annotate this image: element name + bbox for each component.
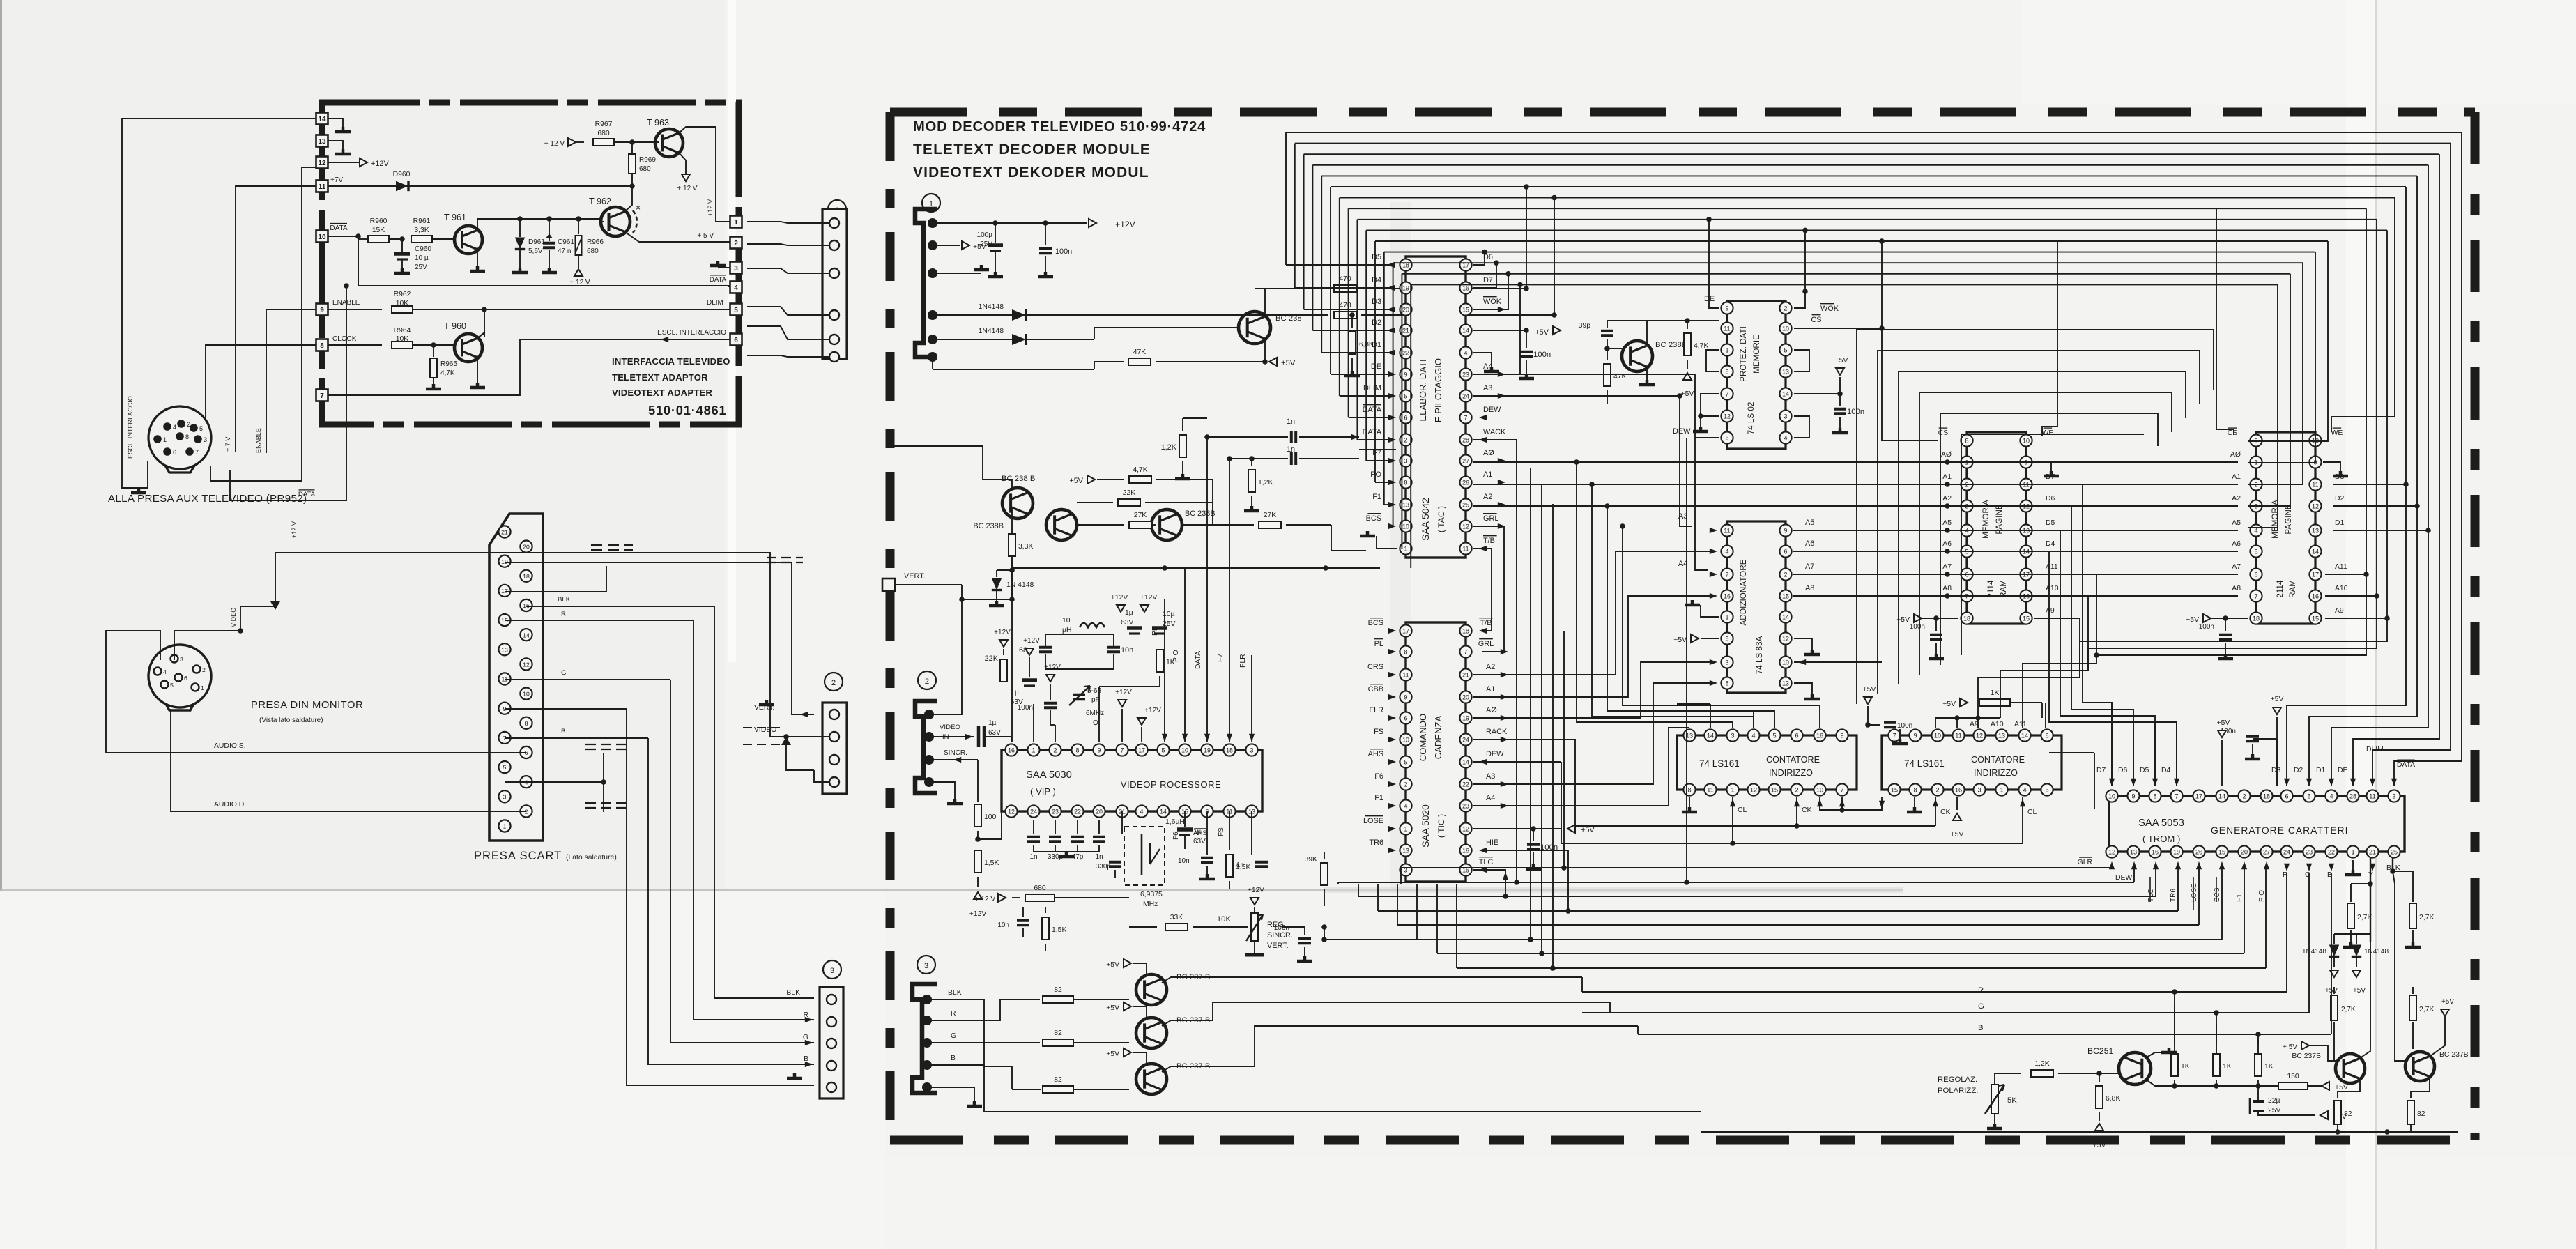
svg-text:SAA 5053: SAA 5053 bbox=[2138, 818, 2184, 829]
svg-text:2: 2 bbox=[1784, 305, 1788, 312]
svg-text:AØ: AØ bbox=[1483, 449, 1494, 457]
wire bc238b prot emitter gnd bbox=[1646, 367, 1648, 380]
capacitor 1u 63V vip bbox=[1127, 626, 1142, 630]
svg-text:D2: D2 bbox=[2335, 495, 2345, 503]
svg-text:11: 11 bbox=[1724, 527, 1730, 534]
svg-text:14: 14 bbox=[1462, 327, 1469, 334]
wire video arrow drop bbox=[781, 737, 791, 745]
2114 +5V 100n ram1 bbox=[1915, 618, 1958, 619]
2114 pin9 gnd ram2 bbox=[2323, 462, 2340, 471]
svg-text:23: 23 bbox=[1462, 371, 1469, 378]
svg-text:8: 8 bbox=[1965, 437, 1968, 444]
trimmer 5-65pF bbox=[1073, 695, 1085, 699]
svg-text:INDIRIZZO: INDIRIZZO bbox=[1769, 768, 1813, 778]
svg-text:17: 17 bbox=[1138, 746, 1145, 753]
svg-text:7: 7 bbox=[1464, 648, 1468, 655]
SAA5020 left pin labels bbox=[1370, 618, 1383, 619]
cnt1 CL arrow bbox=[1732, 797, 1733, 843]
svg-text:1K: 1K bbox=[1166, 659, 1175, 666]
svg-text:330p: 330p bbox=[1096, 863, 1112, 871]
svg-text:CL: CL bbox=[1738, 806, 1747, 814]
svg-text:5: 5 bbox=[734, 307, 738, 314]
wire audio s to din bbox=[106, 631, 216, 753]
svg-text:18: 18 bbox=[1226, 746, 1233, 753]
ic 2114 RAM pins left ram1 bbox=[1961, 434, 1972, 446]
svg-text:DEW: DEW bbox=[1673, 427, 1691, 436]
svg-text:100n: 100n bbox=[1847, 408, 1864, 416]
svg-text:10: 10 bbox=[2108, 792, 2115, 799]
svg-text:19: 19 bbox=[1402, 284, 1409, 291]
SAA5053 pin1 gnd bbox=[2352, 860, 2354, 870]
wire a9 join bbox=[2079, 641, 2080, 677]
wire conn2 pin1 up to vert bbox=[929, 599, 962, 714]
shield dashes near scart top bbox=[591, 545, 633, 550]
wire A6 line bbox=[1793, 551, 2238, 552]
wire riser f1 long bbox=[1552, 504, 1554, 968]
wire bus13 left corner drop bbox=[1401, 274, 1402, 549]
svg-text:BCS: BCS bbox=[1366, 514, 1381, 523]
wire reg sincr line bbox=[1324, 939, 1417, 940]
svg-text:SAA 5042: SAA 5042 bbox=[1420, 498, 1431, 541]
svg-text:A3: A3 bbox=[1486, 772, 1495, 781]
wires adapter pins to plug1 bbox=[747, 222, 829, 223]
wire B line long bbox=[1638, 1034, 2331, 1035]
ic 2114 RAM body ram1 bbox=[1967, 432, 2026, 624]
+5V bc237 q1 bbox=[1124, 959, 1131, 967]
wire bus line 8 bbox=[1357, 219, 2377, 220]
svg-text:+5V: +5V bbox=[1106, 1004, 1119, 1012]
wire y2 collector bbox=[2430, 1016, 2445, 1056]
svg-text:8: 8 bbox=[525, 720, 528, 727]
74LS83A pin1 gnd bbox=[1701, 605, 1719, 617]
svg-text:100n: 100n bbox=[1018, 704, 1033, 712]
svg-text:+5V: +5V bbox=[2093, 1142, 2106, 1149]
svg-text:17: 17 bbox=[2195, 792, 2202, 799]
74LS02 jumper 7-12 gnd bbox=[1701, 394, 1719, 416]
svg-text:CADENZA: CADENZA bbox=[1433, 715, 1443, 759]
svg-text:AUDIO S.: AUDIO S. bbox=[214, 742, 246, 750]
wire DLIM to pin5 bbox=[484, 309, 730, 310]
wire vert node down to vip pin16 bbox=[1011, 560, 1013, 570]
svg-text:26: 26 bbox=[1462, 479, 1469, 486]
resistor 47K prot bbox=[1607, 348, 1608, 360]
svg-text:1,6µH: 1,6µH bbox=[1165, 818, 1185, 826]
svg-text:PL: PL bbox=[1374, 640, 1383, 648]
svg-text:6: 6 bbox=[1404, 414, 1408, 421]
svg-text:10: 10 bbox=[1782, 325, 1789, 332]
wire DEW drop from 74LS02 bbox=[1686, 438, 1687, 882]
wire A3 riser bbox=[1473, 396, 1692, 526]
svg-text:D3: D3 bbox=[2271, 767, 2281, 774]
svg-text:D4: D4 bbox=[2046, 540, 2055, 548]
svg-text:TLC: TLC bbox=[2147, 889, 2155, 902]
2114 left labels ram1 bbox=[1939, 427, 1948, 429]
svg-text:3: 3 bbox=[924, 962, 928, 970]
capacitor 10n left bbox=[1022, 907, 1024, 917]
wire a10 join bbox=[2087, 648, 2089, 671]
svg-text:47 n: 47 n bbox=[558, 247, 571, 255]
svg-text:470: 470 bbox=[1339, 275, 1351, 283]
svg-text:ESCL. INTERLACCIO: ESCL. INTERLACCIO bbox=[127, 396, 134, 459]
svg-text:BLK: BLK bbox=[2386, 864, 2400, 872]
module connector 1 bracket bbox=[915, 209, 937, 357]
svg-text:D1: D1 bbox=[2316, 767, 2326, 774]
ic 74LS161 pins top cnt1 bbox=[1683, 729, 1695, 741]
svg-text:4: 4 bbox=[2329, 792, 2333, 799]
wire bus line 13 bbox=[1402, 273, 2290, 275]
svg-text:D1: D1 bbox=[2335, 519, 2345, 527]
ic 74LS161 body cnt2 bbox=[1882, 735, 2062, 790]
svg-text:3: 3 bbox=[1784, 413, 1788, 420]
svg-text:22: 22 bbox=[2328, 848, 2335, 855]
svg-text:+5V: +5V bbox=[1863, 686, 1876, 694]
svg-text:A2: A2 bbox=[2232, 495, 2241, 503]
svg-text:10: 10 bbox=[1934, 732, 1941, 739]
plug 3 external bbox=[820, 987, 843, 1098]
wire bus11 right to ram2 addr bbox=[2248, 252, 2315, 463]
svg-text:BC 238B: BC 238B bbox=[973, 522, 1004, 530]
wire D6 riser bbox=[1473, 252, 1485, 265]
svg-text:1K: 1K bbox=[2181, 1063, 2190, 1071]
svg-text:3: 3 bbox=[180, 656, 183, 663]
svg-text:6: 6 bbox=[1784, 548, 1788, 555]
svg-text:T/B: T/B bbox=[1480, 619, 1492, 627]
svg-text:4: 4 bbox=[173, 424, 176, 431]
module connector 1 pins bbox=[928, 218, 937, 228]
wire VIDEO into plug2 bbox=[770, 736, 829, 737]
wire +7V from pin11 bbox=[236, 186, 316, 452]
svg-text:18: 18 bbox=[523, 573, 530, 580]
ic 74LS161 pins bottom cnt1 bbox=[1683, 783, 1695, 795]
svg-text:3: 3 bbox=[204, 436, 207, 443]
svg-text:8: 8 bbox=[1404, 479, 1408, 486]
wire bus line 12 bbox=[1393, 262, 2303, 263]
svg-text:3: 3 bbox=[1250, 746, 1254, 753]
svg-text:B: B bbox=[951, 1055, 956, 1062]
transistor T963 bbox=[655, 129, 683, 157]
svg-text:CL: CL bbox=[2027, 809, 2037, 816]
svg-text:PRESA SCART: PRESA SCART bbox=[474, 850, 562, 862]
wire G from scart11 bbox=[505, 679, 670, 680]
svg-text:A6: A6 bbox=[1942, 540, 1952, 548]
svg-text:CRS: CRS bbox=[1367, 663, 1383, 671]
wire A4 tic riser bbox=[1473, 728, 1689, 806]
svg-text:8: 8 bbox=[1404, 648, 1408, 655]
wire HIE riser bbox=[1482, 850, 1568, 911]
svg-text:13: 13 bbox=[1782, 368, 1789, 375]
svg-text:CS: CS bbox=[2228, 429, 2238, 437]
svg-text:8: 8 bbox=[2153, 792, 2156, 799]
svg-text:D960: D960 bbox=[393, 171, 411, 178]
svg-text:T 961: T 961 bbox=[444, 213, 466, 222]
svg-text:26: 26 bbox=[2195, 848, 2202, 855]
plug 3 circled label bbox=[823, 960, 841, 979]
svg-text:D7: D7 bbox=[2096, 767, 2106, 774]
capacitor C960 10u 25V bbox=[401, 239, 403, 252]
wire A0 line bbox=[1473, 461, 2238, 463]
wire +7V rail pin11 bbox=[328, 185, 632, 187]
svg-text:1: 1 bbox=[1726, 346, 1729, 353]
svg-text:4: 4 bbox=[1140, 808, 1144, 815]
svg-text:12: 12 bbox=[1724, 413, 1731, 420]
capacitor 1n f7 bbox=[1229, 458, 1288, 459]
wire bus10 right to ram2 addr bbox=[2248, 241, 2328, 441]
wire 27Kb to saa5042 bbox=[1331, 525, 1366, 551]
svg-text:DATA: DATA bbox=[710, 276, 727, 284]
svg-text:8: 8 bbox=[1726, 368, 1729, 375]
svg-text:P O: P O bbox=[2258, 890, 2266, 902]
wire bus line 6 bbox=[1340, 197, 2395, 199]
wire bus5 left corner drop bbox=[1330, 187, 1331, 374]
wire bus line 10 bbox=[1375, 240, 2328, 242]
wire bus3 right drop D-line bbox=[2331, 165, 2428, 786]
svg-text:+12 V: +12 V bbox=[707, 199, 714, 216]
svg-text:2: 2 bbox=[1404, 781, 1408, 788]
svg-text:C961: C961 bbox=[558, 238, 574, 246]
svg-text:WE: WE bbox=[2331, 429, 2343, 437]
svg-text:D5: D5 bbox=[2046, 519, 2055, 527]
transistor BC238B prot bbox=[1622, 341, 1653, 371]
svg-text:1µ: 1µ bbox=[1125, 609, 1133, 617]
svg-text:20: 20 bbox=[2241, 848, 2248, 855]
svg-text:R960: R960 bbox=[370, 217, 388, 225]
svg-text:7: 7 bbox=[1464, 414, 1468, 421]
wire bus8 right to ram2 A10 bbox=[2376, 220, 2377, 596]
resistor 1K b bbox=[2216, 1045, 2217, 1054]
svg-text:R969: R969 bbox=[639, 156, 656, 164]
wire T/B riser bbox=[1473, 549, 1492, 631]
svg-text:BC 238 B: BC 238 B bbox=[1002, 475, 1035, 483]
wire pin1 22K bbox=[1033, 704, 1034, 742]
wire riser f7 long bbox=[1530, 468, 1531, 940]
svg-text:T/B: T/B bbox=[1483, 537, 1495, 545]
svg-text:2: 2 bbox=[925, 677, 929, 686]
svg-text:B: B bbox=[804, 1055, 808, 1063]
plug3 gnd symbol bbox=[787, 1073, 802, 1078]
wire ram2 A11 link bbox=[2096, 574, 2366, 655]
svg-text:ELABOR. DATI: ELABOR. DATI bbox=[1418, 359, 1428, 421]
svg-text:G: G bbox=[951, 1032, 956, 1040]
svg-text:B: B bbox=[1978, 1024, 1984, 1032]
+5V pair below diodes bbox=[2330, 970, 2338, 977]
svg-text:11: 11 bbox=[319, 183, 326, 191]
svg-text:+5V: +5V bbox=[2353, 987, 2366, 995]
wire bus line 7 bbox=[1349, 208, 2366, 209]
svg-text:10K: 10K bbox=[1217, 915, 1232, 924]
svg-text:+5V: +5V bbox=[1106, 961, 1119, 969]
cnt2 pin16 +5V bbox=[1956, 797, 1958, 810]
SAA5020 100n cap bbox=[1531, 826, 1536, 832]
svg-text:19: 19 bbox=[1204, 746, 1211, 753]
svg-text:10: 10 bbox=[1062, 617, 1071, 624]
resistor 150 bbox=[2258, 1085, 2278, 1087]
svg-text:+5V: +5V bbox=[1535, 328, 1549, 337]
ic 74LS02 pins right bbox=[1779, 302, 1791, 314]
svg-text:12: 12 bbox=[2312, 503, 2319, 509]
svg-text:6: 6 bbox=[2285, 792, 2288, 799]
wire bus4 left corner drop bbox=[1321, 176, 1322, 353]
wire bus line 9 bbox=[1366, 229, 2387, 231]
svg-text:74 LS 83A: 74 LS 83A bbox=[1755, 636, 1764, 675]
svg-text:A8: A8 bbox=[1942, 585, 1952, 592]
wire data drop bbox=[358, 236, 359, 286]
svg-text:A2: A2 bbox=[1942, 495, 1952, 503]
svg-text:1: 1 bbox=[1726, 613, 1729, 620]
svg-text:RACK: RACK bbox=[1486, 728, 1508, 736]
svg-text:9: 9 bbox=[1098, 746, 1101, 753]
wire bottom bus TR6 bbox=[1378, 910, 2178, 912]
module connector 3 bracket bbox=[912, 984, 937, 1093]
svg-text:47K: 47K bbox=[1133, 348, 1147, 356]
svg-text:15: 15 bbox=[2218, 848, 2225, 855]
wire T960 collector bbox=[477, 333, 484, 338]
wire nest-e loop 1 bbox=[1878, 351, 2200, 694]
svg-text:33K: 33K bbox=[1170, 914, 1183, 921]
svg-text:AØ: AØ bbox=[2230, 451, 2241, 459]
svg-text:14: 14 bbox=[1782, 390, 1789, 397]
svg-text:12: 12 bbox=[1008, 808, 1015, 815]
svg-text:5: 5 bbox=[1404, 392, 1408, 399]
svg-text:13: 13 bbox=[2130, 848, 2137, 855]
wire q1 out bbox=[1162, 977, 1582, 983]
wire scart4 bridge bbox=[505, 781, 604, 783]
wire bus line 2 bbox=[1304, 153, 2439, 155]
svg-text:22K: 22K bbox=[985, 654, 999, 663]
wire CS drop bbox=[1881, 241, 1883, 328]
transistor BC238B v3 bbox=[1151, 509, 1182, 540]
transistor BC251 bbox=[2119, 1052, 2151, 1085]
svg-text:1: 1 bbox=[734, 219, 738, 227]
svg-text:3: 3 bbox=[1726, 659, 1729, 666]
svg-text:R966: R966 bbox=[587, 238, 604, 246]
svg-text:27: 27 bbox=[1462, 457, 1469, 464]
svg-text:+5V: +5V bbox=[2335, 1084, 2348, 1091]
wire bus12 right to ram2 addr bbox=[2248, 263, 2303, 484]
svg-text:5: 5 bbox=[503, 764, 507, 771]
svg-text:SINCR.: SINCR. bbox=[1267, 931, 1293, 940]
svg-text:MHz: MHz bbox=[1143, 901, 1158, 908]
wire conn2 pin4 gnd bbox=[929, 782, 955, 799]
svg-text:16: 16 bbox=[1724, 592, 1731, 599]
svg-text:A11: A11 bbox=[2046, 563, 2058, 571]
svg-text:1: 1 bbox=[2351, 848, 2354, 855]
wire pin9 up bbox=[1098, 687, 1100, 742]
svg-text:100µ: 100µ bbox=[977, 231, 993, 239]
capacitor 1n right bbox=[1251, 811, 1252, 855]
svg-text:13: 13 bbox=[1998, 732, 2005, 739]
wire nest-e stub verticals bbox=[2213, 330, 2214, 390]
wire bus7 left corner drop bbox=[1348, 208, 1349, 417]
svg-text:R: R bbox=[561, 611, 566, 618]
ic 74LS161 pins bottom cnt2 bbox=[1888, 783, 1900, 795]
svg-text:9: 9 bbox=[2131, 792, 2135, 799]
74LS02 pin14 +5V 100n bbox=[1794, 393, 1840, 394]
svg-text:( TAC ): ( TAC ) bbox=[1436, 506, 1446, 532]
svg-text:6: 6 bbox=[173, 449, 176, 456]
svg-text:10: 10 bbox=[318, 233, 326, 241]
Y line from pin21 bbox=[2370, 852, 2371, 942]
svg-text:2: 2 bbox=[187, 421, 190, 428]
svg-text:13: 13 bbox=[501, 646, 508, 653]
wire sincr node bbox=[977, 799, 979, 802]
svg-text:24: 24 bbox=[1030, 808, 1037, 815]
svg-text:R: R bbox=[803, 1011, 808, 1019]
SCART connector body bbox=[489, 514, 543, 841]
svg-text:1: 1 bbox=[2000, 786, 2003, 793]
wire +12V feed R967 bbox=[568, 138, 576, 146]
svg-text:100n: 100n bbox=[1055, 247, 1072, 256]
plug 1 external bbox=[822, 209, 847, 359]
wire cnt bridge to cnt2 pin15 bbox=[1842, 797, 1882, 810]
svg-text:( VIP ): ( VIP ) bbox=[1030, 786, 1056, 797]
svg-text:7: 7 bbox=[1726, 390, 1729, 397]
wire +12V to din pin7 bbox=[210, 466, 211, 481]
svg-text:1,2K: 1,2K bbox=[2034, 1060, 2049, 1068]
svg-text:TR6: TR6 bbox=[1369, 838, 1383, 847]
svg-text:25V: 25V bbox=[415, 263, 427, 271]
module connector 2 bracket bbox=[915, 701, 937, 793]
svg-text:3: 3 bbox=[830, 967, 834, 975]
svg-text:VERT.: VERT. bbox=[754, 704, 774, 712]
svg-text:4,7K: 4,7K bbox=[440, 369, 455, 377]
wire B from scart7 bbox=[505, 737, 648, 739]
svg-text:20: 20 bbox=[1462, 694, 1469, 700]
capacitor 10u 25V vip bbox=[1152, 626, 1167, 630]
svg-text:1: 1 bbox=[1404, 545, 1408, 552]
fold line horizontal bbox=[0, 889, 1903, 891]
svg-text:+5V: +5V bbox=[1681, 390, 1694, 398]
wire bus line 5 bbox=[1331, 186, 2406, 187]
74LS02 WOK bbox=[1794, 291, 1805, 308]
wire bus6 right to ram2 WE bbox=[2331, 198, 2395, 432]
wire AUDIO D from scart2 bbox=[216, 811, 526, 812]
svg-text:TELETEXT DECODER MODULE: TELETEXT DECODER MODULE bbox=[913, 141, 1151, 158]
svg-text:18: 18 bbox=[1462, 627, 1469, 634]
svg-text:A10: A10 bbox=[1991, 721, 2004, 728]
svg-text:+12V: +12V bbox=[371, 160, 389, 168]
svg-text:AHS: AHS bbox=[1193, 829, 1207, 837]
svg-text:4: 4 bbox=[1784, 434, 1788, 441]
svg-text:22K: 22K bbox=[1123, 489, 1136, 497]
wire conn3 B bbox=[927, 1064, 984, 1066]
wire A4 riser bbox=[1473, 374, 1708, 570]
wire ram1 D5 to trom bbox=[2034, 530, 2155, 786]
wire to plug2 pin4 bbox=[814, 770, 829, 782]
svg-text:+5V: +5V bbox=[2217, 719, 2230, 727]
svg-text:G: G bbox=[561, 669, 566, 677]
ic 2114 RAM pins right ram1 bbox=[2020, 434, 2032, 446]
svg-text:3: 3 bbox=[1977, 786, 1981, 793]
wire trom glr feeds bbox=[2094, 753, 2095, 809]
wire bc251 emitter rail bbox=[2145, 1079, 2293, 1086]
ic 74LS83A pins left bbox=[1721, 524, 1733, 536]
capacitor 10n below bbox=[1206, 811, 1208, 855]
wire bus line 3 bbox=[1312, 164, 2428, 166]
wire B drop to plug3 bbox=[648, 738, 814, 1064]
riser F7 bbox=[1229, 459, 1230, 742]
svg-text:3: 3 bbox=[1731, 732, 1734, 739]
svg-text:1,5K: 1,5K bbox=[1052, 926, 1066, 934]
svg-text:13: 13 bbox=[2312, 527, 2319, 534]
wire ram1 A11 down bbox=[2023, 574, 2096, 728]
svg-text:11: 11 bbox=[2312, 481, 2318, 488]
wire de bbox=[1709, 305, 1719, 308]
wire conn3 BLK bbox=[927, 999, 1012, 1066]
svg-text:A6: A6 bbox=[1805, 539, 1814, 548]
svg-text:PROTEZ. DATI: PROTEZ. DATI bbox=[1739, 326, 1748, 382]
svg-text:7: 7 bbox=[320, 392, 324, 400]
resistor 33K bbox=[1129, 926, 1157, 928]
